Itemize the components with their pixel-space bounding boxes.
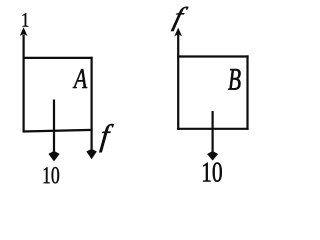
wire bottom edge of A: [23, 130, 93, 132]
weight arrow shaft of B: [212, 111, 214, 152]
label 10 under B: [203, 162, 222, 181]
label 1 (applied force on A): [22, 13, 28, 27]
wire top edge of A: [23, 57, 93, 59]
label f on A: [99, 124, 113, 152]
label A: [73, 69, 87, 88]
wire left edge of A + lift arrow shaft: [23, 35, 25, 133]
wire right edge of B: [246, 55, 248, 129]
arrowhead up-force on A: [20, 27, 28, 36]
arrowhead friction f on A: [86, 149, 96, 160]
label f on B: [171, 7, 188, 31]
arrowhead friction f on B (up): [174, 28, 182, 37]
wire bottom edge of B: [177, 128, 249, 130]
wire top edge of B: [177, 55, 249, 57]
weight arrow shaft of A: [53, 100, 55, 152]
wire right edge of A + friction arrow shaft: [90, 57, 92, 150]
block A outline: [23, 35, 93, 152]
block B outline: [177, 35, 249, 152]
arrowhead weight of A: [48, 151, 59, 162]
label B: [228, 69, 241, 90]
label 10 under A: [44, 167, 60, 183]
arrowhead weight of B: [207, 151, 218, 161]
wire left edge of B + friction arrow shaft: [177, 35, 179, 130]
